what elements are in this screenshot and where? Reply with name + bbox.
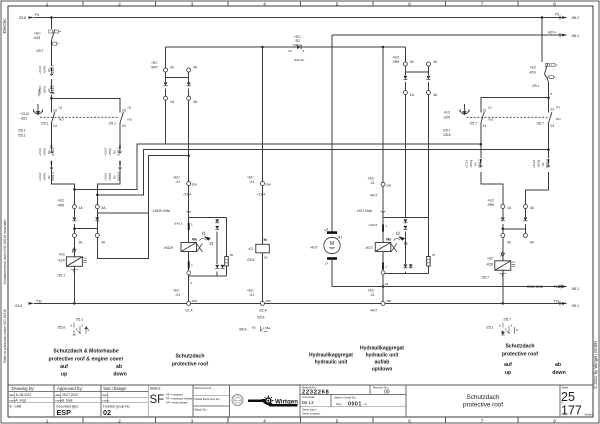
svg-text:3: 3 bbox=[191, 1, 194, 6]
wire motor H07 column bbox=[331, 35, 333, 287]
svg-text:13: 13 bbox=[53, 109, 57, 113]
svg-text:1: 1 bbox=[505, 327, 507, 331]
node XR6 join bbox=[502, 228, 505, 231]
diode pair HG29 bottom bbox=[215, 265, 219, 268]
connector XR7 pin 1A bbox=[164, 96, 168, 100]
connector XR6 pin 1A bbox=[501, 205, 505, 209]
svg-text:60: 60 bbox=[47, 68, 51, 72]
svg-text:-HG7: -HG7 bbox=[365, 246, 373, 250]
svg-text:+CU3: +CU3 bbox=[104, 173, 108, 181]
node T31 K24 junction bbox=[73, 302, 76, 305]
svg-text:+EC: +EC bbox=[173, 289, 180, 293]
svg-text:5: 5 bbox=[336, 1, 339, 6]
svg-text:0001: 0001 bbox=[348, 401, 362, 407]
svg-text:+CU3: +CU3 bbox=[20, 112, 29, 116]
svg-text:+EC: +EC bbox=[530, 66, 537, 70]
svg-text:-X1: -X1 bbox=[249, 293, 254, 297]
wire K24 contact chain bbox=[542, 18, 549, 113]
svg-text:+EC: +EC bbox=[488, 199, 495, 203]
svg-text:date: date bbox=[56, 393, 62, 397]
wire HG29 branch top bbox=[189, 217, 227, 219]
wire S25 pole14 out bbox=[481, 123, 503, 205]
field Status SF bbox=[150, 386, 193, 406]
svg-text:-XR6: -XR6 bbox=[487, 203, 495, 207]
svg-text:1A: 1A bbox=[410, 93, 415, 97]
svg-text:/25.1: /25.1 bbox=[109, 122, 117, 126]
label function text Schutzdach Motorhaube bbox=[49, 349, 127, 378]
wire XR5 1A to 2K bbox=[73, 209, 75, 234]
svg-text:name: name bbox=[103, 399, 110, 402]
wire K25 chain lower to S51 bbox=[50, 79, 52, 113]
svg-text:/56.2: /56.2 bbox=[572, 16, 580, 20]
wire XR7 diode columns bbox=[166, 78, 189, 97]
wire S51 pole2 out bbox=[97, 123, 120, 205]
wire XR5 3A to 4K bbox=[96, 209, 98, 234]
wire XR7 columns to join bbox=[166, 72, 189, 78]
svg-text:4K: 4K bbox=[101, 240, 106, 244]
svg-text:Hab.3A: Hab.3A bbox=[294, 58, 305, 62]
svg-text:1A: 1A bbox=[79, 206, 84, 210]
node T31 K26 junction bbox=[502, 302, 505, 305]
svg-text:1A: 1A bbox=[170, 100, 175, 104]
title block row lines cols 1-3 bbox=[8, 392, 148, 403]
field sheet title bbox=[463, 394, 503, 409]
svg-text:auf/ab: auf/ab bbox=[375, 360, 390, 366]
bottom ruler numbers bbox=[46, 418, 557, 423]
svg-text:-K2: -K2 bbox=[248, 247, 253, 251]
svg-text:+EC: +EC bbox=[393, 56, 400, 60]
svg-text:4: 4 bbox=[263, 1, 266, 6]
switch S25 actuator bbox=[460, 104, 469, 115]
diode pair HG7 bottom bbox=[403, 264, 407, 267]
field Drawing by bbox=[9, 386, 35, 409]
svg-text:-HG29: -HG29 bbox=[163, 246, 173, 250]
svg-text:SF: SF bbox=[150, 394, 165, 406]
arrow dest /56.1 top bbox=[562, 34, 568, 37]
svg-text:protective roof: protective roof bbox=[172, 362, 209, 368]
node XR5 join bbox=[73, 227, 76, 230]
svg-text:-X57g: -X57g bbox=[469, 159, 473, 168]
svg-text:8: 8 bbox=[553, 1, 556, 6]
svg-text:NO: NO bbox=[128, 118, 133, 122]
linkage S51 dashed bbox=[40, 116, 119, 118]
svg-text:-X1: -X1 bbox=[370, 181, 375, 185]
svg-text:60: 60 bbox=[47, 175, 51, 179]
svg-text:Sheets: Sheets bbox=[585, 412, 594, 416]
svg-text:7: 7 bbox=[481, 418, 484, 423]
svg-text:4K: 4K bbox=[530, 240, 535, 244]
svg-text:Schutzdach & Motorhaube: Schutzdach & Motorhaube bbox=[53, 349, 119, 355]
label X57p lower col2 rotated bbox=[104, 147, 121, 156]
wire bus L1 to S25 pole13 bbox=[74, 144, 480, 189]
svg-text:Schutzdach: Schutzdach bbox=[505, 344, 534, 350]
svg-text:/56.1: /56.1 bbox=[572, 34, 580, 38]
svg-text:H07+: H07+ bbox=[548, 31, 556, 35]
svg-text:280: 280 bbox=[386, 184, 391, 188]
svg-text:3A: 3A bbox=[193, 100, 198, 104]
svg-text:24: 24 bbox=[122, 124, 126, 128]
wire XR6 1A to 2K bbox=[502, 209, 504, 234]
wire S25 pole13 feed bbox=[481, 98, 549, 113]
svg-text:/25.7: /25.7 bbox=[443, 128, 451, 132]
svg-text:-X57p: -X57p bbox=[42, 85, 46, 94]
wire XR7 2K column feed bbox=[165, 47, 167, 68]
svg-text:Schutzvermerk nach ISO 16016 b: Schutzvermerk nach ISO 16016 beachten bbox=[3, 219, 7, 284]
svg-text:Partial Document No.:: Partial Document No.: bbox=[195, 397, 222, 401]
svg-text:-X1: -X1 bbox=[249, 180, 254, 184]
node junction K2 feed bbox=[261, 46, 264, 49]
switch S25 pole 13-14 bbox=[481, 112, 484, 123]
svg-text:/138.3: /138.3 bbox=[293, 43, 302, 47]
connector XR6 pin 3A bbox=[523, 205, 527, 209]
svg-text:date: date bbox=[9, 393, 15, 397]
svg-text:Electric: Electric bbox=[2, 18, 7, 34]
svg-text:-X57a: -X57a bbox=[37, 88, 41, 97]
svg-text:HE = integrate: HE = integrate bbox=[166, 392, 183, 396]
svg-text:(1): (1) bbox=[556, 105, 560, 109]
svg-text:13: 13 bbox=[483, 109, 487, 113]
wire K2 column lower bbox=[262, 253, 264, 302]
wire HG7 branch mini col bbox=[427, 218, 429, 274]
svg-text:65a: 65a bbox=[265, 326, 270, 330]
label X57 S25 col1 rotated bbox=[465, 159, 482, 168]
svg-text:/25.4: /25.4 bbox=[247, 258, 255, 262]
wire XR8 columns join bbox=[405, 66, 428, 72]
wire XR5 join line bbox=[74, 228, 97, 230]
svg-text:-HG7.XMa: -HG7.XMa bbox=[356, 209, 372, 213]
svg-text:1: 1 bbox=[191, 223, 193, 227]
svg-text:(1): (1) bbox=[488, 106, 492, 110]
svg-text:23: 23 bbox=[551, 108, 555, 112]
svg-text:ESP: ESP bbox=[57, 408, 72, 417]
wire HG29 branch diode col bbox=[216, 232, 218, 277]
svg-text:/21.4: /21.4 bbox=[258, 193, 266, 197]
connector XR8 pin 4K bbox=[426, 62, 430, 66]
svg-text:299: 299 bbox=[192, 183, 197, 187]
svg-text:M: M bbox=[330, 241, 334, 247]
svg-text:/44.7: /44.7 bbox=[370, 193, 378, 197]
diode XR5 right bbox=[95, 217, 99, 220]
svg-text:NO: NO bbox=[489, 118, 494, 122]
svg-text:2: 2 bbox=[118, 1, 121, 6]
svg-text:5: 5 bbox=[71, 324, 73, 328]
svg-text:5: 5 bbox=[53, 92, 55, 96]
connector XR7 pin 4K bbox=[187, 68, 191, 72]
svg-text:-XR5: -XR5 bbox=[57, 203, 65, 207]
svg-text:Document No.:: Document No.: bbox=[195, 386, 213, 390]
connector XR7 pin 2K bbox=[164, 68, 168, 72]
arrow source /23.8 F5 bbox=[29, 16, 35, 19]
wire HG7 branch bottom bbox=[383, 272, 428, 274]
node S25 L1 junction bbox=[480, 143, 483, 146]
svg-text:Intro-week: Intro-week bbox=[302, 395, 315, 399]
wire HG29 branch bottom bbox=[189, 275, 227, 277]
svg-text:auf: auf bbox=[60, 364, 68, 370]
relay coil K2 bbox=[256, 238, 269, 253]
label function text Schutzdach 3 bbox=[502, 344, 566, 377]
svg-text:/153.4: /153.4 bbox=[51, 65, 55, 74]
node HG7 GND junction bbox=[382, 285, 385, 288]
connector XR6 pin 2K bbox=[501, 233, 505, 237]
wire XR8 3A long column to HG7 branch bbox=[427, 95, 429, 218]
svg-text:+CU3: +CU3 bbox=[38, 66, 42, 74]
svg-text:02: 02 bbox=[103, 408, 111, 417]
svg-text:/21.4: /21.4 bbox=[184, 193, 192, 197]
wire K2 column middle bbox=[262, 186, 264, 245]
switch S51 actuator bbox=[34, 104, 43, 115]
wire S51 pole1 out bbox=[51, 123, 74, 205]
wire XR8 diode columns bbox=[405, 72, 428, 91]
suppressor 50 HG29 bbox=[225, 257, 229, 267]
connector X1 pin 299 bbox=[187, 182, 191, 186]
svg-text:/25.1: /25.1 bbox=[58, 273, 66, 277]
svg-text:-K26: -K26 bbox=[486, 262, 493, 266]
svg-text:24: 24 bbox=[551, 124, 555, 128]
arrow source /23.8 T31 bbox=[29, 302, 35, 305]
diode XR7 right bbox=[187, 82, 191, 85]
svg-text:65: 65 bbox=[252, 325, 256, 329]
svg-text:-HG29.XMa: -HG29.XMa bbox=[152, 209, 170, 213]
svg-text:B - CAB: B - CAB bbox=[10, 405, 22, 409]
svg-text:/28.1: /28.1 bbox=[572, 304, 580, 308]
wire XR7 1A down to L1 bbox=[165, 100, 167, 144]
svg-text:5: 5 bbox=[499, 324, 501, 328]
svg-text:14: 14 bbox=[483, 124, 487, 128]
svg-text:Drawing by:: Drawing by: bbox=[12, 386, 35, 391]
arrow dest /56.1 GND bbox=[562, 285, 568, 288]
svg-text:T31: T31 bbox=[554, 285, 560, 289]
svg-text:up/down: up/down bbox=[372, 367, 393, 373]
svg-text:+EC: +EC bbox=[247, 289, 254, 293]
svg-text:+EC: +EC bbox=[59, 253, 66, 257]
diode XR7 left bbox=[164, 82, 168, 85]
svg-text:protective roof: protective roof bbox=[502, 352, 539, 358]
svg-text:up: up bbox=[505, 370, 511, 376]
svg-text:6: 6 bbox=[408, 1, 411, 6]
svg-text:(1): (1) bbox=[128, 106, 132, 110]
svg-text:down: down bbox=[552, 370, 566, 376]
svg-text:/153.2: /153.2 bbox=[477, 159, 481, 168]
svg-text:+EC: +EC bbox=[368, 176, 375, 180]
svg-text:Refer to protection notice ISO: Refer to protection notice ISO 16016 bbox=[3, 309, 7, 363]
svg-text:1: 1 bbox=[385, 224, 387, 228]
svg-text:+EC: +EC bbox=[444, 111, 451, 115]
svg-text:-S25: -S25 bbox=[443, 116, 450, 120]
svg-text:protective roof & engine cover: protective roof & engine cover bbox=[49, 357, 124, 363]
svg-text:/25.7: /25.7 bbox=[36, 49, 44, 53]
svg-text:SF = serial release: SF = serial release bbox=[166, 400, 188, 404]
top ruler ticks bbox=[83, 1, 518, 6]
wire empty box bbox=[97, 213, 148, 258]
svg-text:/23.8: /23.8 bbox=[15, 304, 23, 308]
svg-text:/25.7: /25.7 bbox=[537, 122, 545, 126]
svg-text:-X1: -X1 bbox=[175, 180, 180, 184]
bottom ruler ticks bbox=[83, 417, 518, 423]
svg-text:4: 4 bbox=[511, 324, 513, 328]
svg-text:Status:: Status: bbox=[150, 386, 161, 390]
svg-text:Wirtgen: Wirtgen bbox=[275, 399, 298, 406]
motor M1 bbox=[324, 228, 340, 264]
svg-text:8: 8 bbox=[553, 418, 556, 423]
wire K26 coil feed bbox=[502, 237, 504, 260]
svg-text:ab: ab bbox=[555, 362, 561, 368]
svg-text:60: 60 bbox=[47, 150, 51, 154]
svg-text:11.06.2012: 11.06.2012 bbox=[16, 393, 32, 397]
svg-text:-X1: -X1 bbox=[370, 293, 375, 297]
connector X57p pin lower col1 bbox=[50, 145, 53, 154]
svg-text:1: 1 bbox=[46, 418, 49, 423]
svg-text:from: from bbox=[336, 402, 342, 406]
svg-text:2: 2 bbox=[118, 418, 121, 423]
svg-text:protective roof: protective roof bbox=[463, 402, 503, 409]
connector X1 pin 499 bbox=[187, 301, 191, 305]
svg-text:/21.4: /21.4 bbox=[259, 309, 267, 313]
svg-text:-HG7: -HG7 bbox=[310, 246, 318, 250]
connector X1 pin 498 bbox=[261, 301, 265, 305]
svg-text:auf: auf bbox=[504, 362, 512, 368]
wire F5 bus bbox=[34, 17, 562, 19]
connector X57b pin lower col2 bbox=[118, 161, 121, 170]
title block row lines material col bbox=[300, 385, 406, 407]
svg-text:a2: a2 bbox=[385, 282, 389, 286]
label X57b upper rotated bbox=[38, 65, 55, 74]
wire K25 chain upper bbox=[50, 18, 52, 67]
svg-text:/153.2: /153.2 bbox=[117, 147, 121, 156]
svg-text:F5: F5 bbox=[35, 13, 39, 17]
svg-text:F5: F5 bbox=[555, 13, 559, 17]
arrow dest /56.2 bbox=[562, 16, 568, 19]
svg-text:/66.6: /66.6 bbox=[239, 327, 247, 331]
svg-text:/153.4: /153.4 bbox=[51, 172, 55, 181]
svg-text:hydraulic unit: hydraulic unit bbox=[315, 360, 348, 366]
node S25 branch junction bbox=[547, 96, 550, 99]
svg-text:/25.4: /25.4 bbox=[257, 316, 265, 320]
svg-text:+EC: +EC bbox=[247, 176, 254, 180]
node tee at y155.6 bbox=[187, 154, 190, 157]
svg-text:2K: 2K bbox=[410, 60, 415, 64]
svg-text:(1): (1) bbox=[59, 106, 63, 110]
svg-text:to: to bbox=[365, 402, 368, 406]
label X57p upper rotated bbox=[38, 85, 55, 94]
wire XR6 3A to 4K bbox=[524, 209, 526, 234]
svg-text:2K: 2K bbox=[79, 240, 84, 244]
svg-text:+EC: +EC bbox=[58, 199, 65, 203]
svg-text:50: 50 bbox=[230, 253, 234, 257]
svg-text:/44.7: /44.7 bbox=[370, 309, 378, 313]
diode XR6 right bbox=[523, 217, 527, 220]
svg-text:/25.2: /25.2 bbox=[18, 133, 26, 137]
svg-text:/153.4: /153.4 bbox=[117, 172, 121, 181]
svg-text:-X57p: -X57p bbox=[42, 147, 46, 156]
svg-text:/25.1: /25.1 bbox=[18, 129, 26, 133]
wire bus L2 to S25 pole24 bbox=[97, 150, 548, 195]
svg-text:Sheet Location:: Sheet Location: bbox=[302, 412, 321, 416]
svg-text:00: 00 bbox=[384, 390, 390, 396]
wire HG7 branch top bbox=[383, 217, 428, 219]
svg-text:1: 1 bbox=[46, 1, 49, 6]
crossref contacts K26 bbox=[502, 323, 515, 336]
svg-text:GND GND: GND GND bbox=[527, 285, 544, 289]
svg-text:-XR8: -XR8 bbox=[392, 60, 400, 64]
svg-text:/25.1: /25.1 bbox=[41, 122, 49, 126]
svg-text:-X57b: -X57b bbox=[42, 65, 46, 74]
svg-text:6: 6 bbox=[88, 328, 90, 332]
svg-text:498: 498 bbox=[266, 299, 271, 303]
solenoid valve HG29 bbox=[181, 211, 213, 275]
connector X1 pin 490 bbox=[381, 301, 385, 305]
field Approved by bbox=[56, 386, 83, 417]
svg-text:T31: T31 bbox=[36, 299, 42, 303]
connector XR8 pin 1A bbox=[403, 91, 407, 95]
label X57p lower col1 rotated bbox=[38, 147, 55, 156]
linkage S25 dashed bbox=[467, 116, 548, 118]
svg-text:/25.8: /25.8 bbox=[443, 133, 451, 137]
connector X57 pin S25 col2 bbox=[547, 159, 550, 168]
logo service stamp bbox=[232, 394, 243, 405]
svg-text:4: 4 bbox=[82, 324, 84, 328]
connector XR5 pin 1A bbox=[72, 205, 76, 209]
svg-text:Approved by:: Approved by: bbox=[57, 386, 83, 391]
svg-text:5: 5 bbox=[551, 92, 553, 96]
svg-text:06.13: 06.13 bbox=[302, 400, 314, 405]
svg-text:298: 298 bbox=[266, 183, 271, 187]
wire H07+ line bbox=[332, 34, 562, 36]
svg-text:a6: a6 bbox=[264, 238, 268, 242]
svg-text:+CU3: +CU3 bbox=[104, 148, 108, 156]
svg-text:7: 7 bbox=[481, 1, 484, 6]
connector X57p pin lower col2 bbox=[118, 145, 121, 154]
svg-text:down: down bbox=[113, 372, 127, 378]
svg-text:2: 2 bbox=[385, 265, 387, 269]
node junction X1-280 feed bbox=[382, 46, 385, 49]
diode XR6 left bbox=[501, 217, 505, 220]
svg-text:Valid for Serial No.:: Valid for Serial No.: bbox=[334, 396, 357, 400]
svg-text:3: 3 bbox=[191, 418, 194, 423]
diode XR5 left bbox=[72, 217, 76, 220]
svg-text:+CU3: +CU3 bbox=[38, 148, 42, 156]
svg-text:177: 177 bbox=[561, 403, 582, 417]
svg-text:+EC: +EC bbox=[173, 176, 180, 180]
node F5 junction K24 bbox=[541, 16, 544, 19]
svg-text:-S51: -S51 bbox=[20, 117, 27, 121]
svg-text:6: 6 bbox=[408, 418, 411, 423]
wire HG7 chain upper bbox=[382, 186, 384, 242]
crossref contacts K2 bbox=[261, 326, 268, 332]
connector X1 pin 280 bbox=[381, 182, 385, 186]
wire K26 coil to T31 bbox=[502, 269, 504, 303]
wire HG7 branch diode col bbox=[404, 232, 406, 265]
relay contact K25 bbox=[49, 30, 61, 46]
svg-text:L-: L- bbox=[325, 262, 328, 266]
svg-text:up: up bbox=[61, 372, 67, 378]
svg-text:/56.1: /56.1 bbox=[572, 287, 580, 291]
svg-text:Hydraulikaggregat: Hydraulikaggregat bbox=[360, 346, 404, 352]
wire XR8 feed corner bbox=[404, 47, 406, 62]
svg-text:-X57b: -X57b bbox=[108, 172, 112, 181]
svg-text:/142.8: /142.8 bbox=[369, 223, 378, 227]
svg-text:-XR7: -XR7 bbox=[150, 66, 158, 70]
svg-text:+EC: +EC bbox=[487, 257, 494, 261]
arrow dest /28.1 T31 bbox=[562, 302, 568, 305]
switch S25 pole 23-24 bbox=[549, 112, 552, 123]
svg-text:490: 490 bbox=[386, 299, 391, 303]
svg-text:T31: T31 bbox=[554, 300, 560, 304]
connector X1 pin 298 bbox=[261, 182, 265, 186]
svg-text:+EC: +EC bbox=[368, 289, 375, 293]
svg-text:-X57b: -X57b bbox=[42, 172, 46, 181]
svg-text:Ma: Ma bbox=[192, 238, 197, 242]
relay coil K26 bbox=[495, 251, 515, 277]
